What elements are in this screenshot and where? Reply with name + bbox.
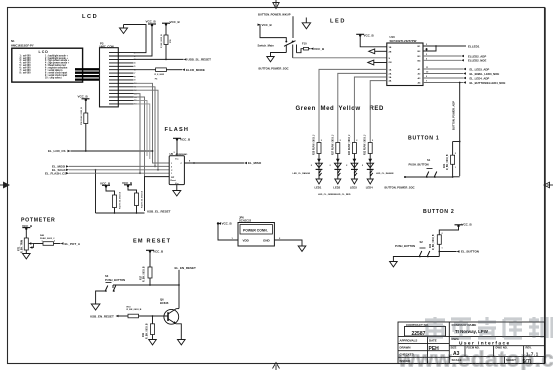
svg-text:R_8_0603: R_8_0603 — [155, 74, 165, 76]
transistor Q6 — [164, 309, 179, 325]
svg-text:VCC_B: VCC_B — [222, 222, 233, 226]
mux U10 body — [387, 43, 423, 86]
power VCC_B (pull-up R14) — [122, 181, 133, 187]
power VCC_B (R15 pull-up) — [162, 20, 181, 26]
power connector JP6 body — [238, 223, 274, 247]
bus wire LCD to connector (4 thick bars) — [75, 69, 100, 79]
svg-text:BUTTON 1: BUTTON 1 — [408, 136, 439, 142]
wire pin16 stub — [134, 104, 150, 159]
resistor R16 (pull-up on EL_LCD_CS) — [81, 100, 88, 151]
wire VCC to pin 2 — [134, 25, 153, 56]
net label EL_POT_A — [61, 242, 81, 246]
wire emitter to ground — [176, 324, 182, 340]
wire EL_EN_RESET vertical to collector — [178, 270, 180, 309]
LED D1 (green) — [311, 154, 323, 180]
svg-text:POWER CONN.: POWER CONN. — [243, 229, 268, 233]
wire pin14 down to USB_EL_RESET rail — [134, 97, 145, 177]
net label EL_BUTTON — [457, 250, 479, 254]
mux input stub with arrow (pin OE) — [368, 60, 387, 65]
power VCC_B (flash) — [173, 137, 191, 141]
svg-text:VCC_B: VCC_B — [153, 249, 164, 253]
power VCC_B (after fuse) — [311, 47, 326, 51]
svg-text:1: 1 — [42, 241, 43, 243]
svg-text:PUSH_BUTTON: PUSH_BUTTON — [105, 278, 125, 282]
watermark — [397, 317, 553, 370]
net label EL_SCLK — [52, 168, 169, 172]
svg-text:2: 2 — [442, 233, 443, 235]
svg-text:BUTTON_POWER_SOC: BUTTON_POWER_SOC — [385, 185, 415, 189]
connector P3 pin numbers — [134, 52, 137, 105]
junction EL_SCLK — [157, 169, 159, 171]
svg-text:PUSH_BUTTON: PUSH_BUTTON — [409, 162, 429, 166]
svg-text:DATE: DATE — [429, 339, 437, 343]
svg-text:VCC_B: VCC_B — [78, 94, 89, 98]
net label EL_MISO — [244, 161, 262, 165]
wire mux B3 to ELLED2_ADP — [423, 54, 486, 58]
svg-text:R25 FLPW_0603_J: R25 FLPW_0603_J — [314, 134, 316, 155]
svg-text:SN74CBTLV3257PW: SN74CBTLV3257PW — [390, 39, 417, 43]
resistor R17 — [141, 252, 153, 286]
wire pin3 to USB_SL_RESET — [134, 59, 184, 61]
resistor R40 body — [43, 242, 54, 246]
wire R40 to EL_POT_A — [54, 243, 61, 245]
svg-text:S1: S1 — [427, 158, 431, 162]
svg-text:2: 2 — [455, 153, 456, 155]
wire pin15 stub — [134, 100, 148, 156]
wire mux 3A to yellow column — [354, 77, 386, 143]
net label ELCD_MODE — [182, 68, 205, 72]
svg-text:RT1: RT1 — [18, 246, 20, 251]
wire VCC to VDD — [218, 224, 238, 241]
svg-text:VCC_B: VCC_B — [180, 137, 191, 141]
connector P3 pins 1-16 — [109, 53, 134, 104]
flash U5 internal pin names — [171, 159, 183, 185]
svg-text:Med: Med — [321, 106, 335, 112]
mux U10 internal pin names — [389, 46, 422, 85]
ground (button2) — [390, 262, 398, 267]
power VCC_B (button2) — [455, 222, 473, 227]
svg-text:VCC_B: VCC_B — [146, 19, 157, 23]
ground (R11) — [149, 340, 157, 345]
resistor R21 tap jog — [453, 141, 461, 156]
svg-text:USB_EL_RESET: USB_EL_RESET — [147, 209, 171, 213]
ground (top of LCD area) — [120, 25, 128, 34]
resistor R22 — [430, 233, 443, 257]
svg-text:R11: R11 — [143, 332, 145, 337]
LED D3 (yellow) — [346, 154, 358, 180]
svg-text:Yellow: Yellow — [339, 106, 361, 112]
potentiometer RT1 — [18, 238, 33, 253]
svg-text:1: 1 — [455, 167, 456, 169]
wire button2 row to ground — [393, 257, 439, 262]
svg-text:F10: F10 — [302, 41, 307, 45]
wire S3 to ground — [96, 291, 106, 304]
svg-text:R32 FLPW_0603_J: R32 FLPW_0603_J — [365, 134, 367, 155]
LCD pin list right column — [45, 54, 70, 79]
svg-text:R21: R21 — [444, 163, 446, 168]
power VCC_B (pin 2 pull) — [146, 19, 157, 26]
ground (potmeter) — [23, 254, 31, 259]
svg-text:GND: GND — [263, 238, 271, 242]
wire R10 to base — [139, 315, 169, 317]
net arrow LED3 — [350, 179, 358, 190]
svg-text:R_BK_0603_B: R_BK_0603_B — [144, 266, 146, 282]
svg-text:OE: OE — [389, 62, 393, 64]
svg-text:1A: 1A — [389, 68, 392, 71]
wire EL_LCD_CS — [71, 150, 153, 152]
svg-text:R_BK_0603_B: R_BK_0603_B — [161, 34, 163, 48]
svg-text:VCC_B: VCC_B — [100, 181, 111, 185]
svg-text:VCC_B: VCC_B — [262, 23, 273, 27]
resistor R13 pull-up — [106, 187, 122, 214]
frame centre mark top — [273, 0, 279, 9]
net label EL_LCD_CS — [48, 149, 71, 153]
svg-text:R30 FLPW_0603_J: R30 FLPW_0603_J — [349, 134, 351, 155]
svg-text:FLASH: FLASH — [165, 127, 190, 133]
wire pin11 down to flash pin2 — [134, 87, 156, 167]
power VCC_B (led mux) — [356, 34, 374, 38]
ground (power conn) — [298, 246, 306, 251]
resistor R8 (series, horizontal) — [155, 68, 167, 81]
svg-text:EL_EN_RESET: EL_EN_RESET — [175, 266, 197, 270]
pushbutton S1 contacts — [426, 169, 437, 178]
net label USB_SL_RESET — [184, 58, 212, 62]
wire switch to left ground — [271, 53, 287, 57]
resistor R14 pull-up — [128, 186, 144, 213]
wire VCC to flash Vcc pin — [176, 140, 178, 156]
svg-text:USB_SL_RESET: USB_SL_RESET — [188, 58, 212, 62]
wire VCC to mux pin — [360, 36, 387, 47]
junction and wire to EL_BUTTON — [438, 251, 456, 253]
wire flash pin5 to USB_EL_RESET vertical — [145, 177, 170, 211]
svg-text:R_BK_0603_B: R_BK_0603_B — [433, 234, 435, 250]
svg-text:ELCD_MODE: ELCD_MODE — [186, 68, 205, 72]
pushbutton S2 contacts — [419, 248, 430, 257]
svg-text:VCC_B: VCC_B — [122, 181, 133, 185]
mux input stub with arrow (pin 1B) — [369, 49, 387, 54]
svg-text:VCC_B: VCC_B — [462, 222, 473, 226]
svg-text:USB_EN_RESET: USB_EN_RESET — [90, 315, 114, 319]
svg-text:22587: 22587 — [412, 331, 426, 337]
wire mux 1A to green column — [319, 69, 387, 142]
svg-text:EM RESET: EM RESET — [133, 239, 171, 245]
title block outline — [398, 322, 545, 364]
svg-text:R_BK_TRIM: R_BK_TRIM — [21, 240, 23, 253]
svg-text:Switch_Main: Switch_Main — [258, 44, 275, 48]
resistor R25 (green) — [314, 134, 323, 155]
svg-text:1: 1 — [442, 248, 443, 250]
net label EL_FLASH_CS — [45, 171, 169, 175]
frame centre mark right — [544, 182, 553, 188]
wire mux A1 to EL_LED3_ADP — [423, 67, 489, 71]
svg-text:R14 R_03_0603_B: R14 R_03_0603_B — [141, 190, 144, 208]
svg-text:3A: 3A — [389, 76, 392, 79]
wire mux B4 to ELLED2_NOE — [423, 58, 486, 62]
junction on EL_MISO wire — [193, 162, 195, 164]
svg-text:EL_FLASH_CS: EL_FLASH_CS — [45, 171, 66, 175]
flash pin 8 wire to EL_MISO — [184, 162, 244, 164]
svg-text:BC846: BC846 — [160, 301, 169, 305]
ground (em reset button) — [91, 304, 100, 310]
svg-text:BUTTON 2: BUTTON 2 — [423, 209, 454, 215]
junction EL_MOSI — [154, 166, 156, 168]
wire pull-up rail riser — [95, 169, 97, 213]
power VCC_B (potmeter) — [22, 224, 33, 230]
wire button1 row — [404, 176, 460, 178]
power VCC_B (em reset) — [146, 249, 164, 253]
frame centre mark bottom — [273, 363, 280, 370]
wire em reset row — [113, 284, 179, 286]
svg-text:BUTTON_POWER_SOC: BUTTON_POWER_SOC — [259, 66, 289, 70]
net arrow LED1 — [315, 179, 323, 190]
svg-text:LED1: LED1 — [315, 186, 322, 190]
svg-text:BUTTON_POWER_ADP: BUTTON_POWER_ADP — [452, 101, 456, 130]
svg-text:LCD: LCD — [39, 50, 49, 54]
svg-text:LCD: LCD — [82, 14, 98, 20]
svg-text:EL_EN/EL_LED3_NOE: EL_EN/EL_LED3_NOE — [470, 72, 500, 76]
svg-text:EL_LED4_ADP: EL_LED4_ADP — [470, 76, 490, 80]
svg-text:R16 FLBK_0603_B: R16 FLBK_0603_B — [81, 107, 83, 125]
wire pull-up rail to USB_EL_RESET — [96, 212, 145, 214]
svg-text:1B: 1B — [389, 47, 392, 49]
power VCC_B (switch feed) — [258, 23, 273, 27]
power VCC_B (power conn) — [217, 222, 233, 226]
svg-text:2: 2 — [54, 241, 55, 243]
net arrow LED2 — [333, 179, 341, 190]
svg-text:LED_CL_RANGE: LED_CL_RANGE — [293, 172, 311, 175]
wire S3 stub up to row — [112, 285, 114, 288]
wire pot to ground — [25, 250, 27, 254]
svg-text:EL_LCD_CS: EL_LCD_CS — [48, 149, 66, 153]
svg-text:R22: R22 — [430, 243, 432, 248]
svg-text:EL_LED3_ADP: EL_LED3_ADP — [470, 67, 490, 71]
wire switch to LED mux select pin — [293, 57, 387, 59]
resistor R21 — [444, 153, 456, 177]
svg-text:R27 FLPW_0603_J: R27 FLPW_0603_J — [332, 134, 334, 155]
wire flash Vss to ground — [176, 185, 178, 191]
svg-text:RED: RED — [370, 106, 385, 112]
wire VCC to R22 — [439, 226, 458, 235]
wire to R10 — [119, 315, 129, 317]
svg-text:ELLED1: ELLED1 — [468, 45, 480, 49]
svg-text:R_BK_0603_B: R_BK_0603_B — [127, 309, 142, 311]
power VCC_B (pull-up R13) — [100, 181, 111, 187]
svg-text:R17: R17 — [141, 275, 143, 280]
frame centre mark left — [0, 182, 9, 188]
wire mux A4 to EL_BUTTON/ELLED4_NOE — [423, 81, 505, 85]
resistor R30 (yellow) — [349, 134, 358, 155]
wire pin12 down to flash pin3 — [134, 90, 159, 170]
svg-text:BUTTON_POWER_WKUP: BUTTON_POWER_WKUP — [258, 12, 291, 16]
wire BUTTON_POWER_ADP vertical from mux A4 — [459, 82, 461, 176]
svg-text:HMC16315GF-PY: HMC16315GF-PY — [11, 43, 34, 47]
svg-text:S3: S3 — [105, 274, 109, 278]
svg-text:Reset: Reset — [171, 179, 177, 182]
svg-text:VDD: VDD — [243, 238, 250, 242]
svg-text:APPROVALS: APPROVALS — [400, 339, 418, 343]
svg-text:8 : sel 000: 8 : sel 000 — [20, 73, 32, 75]
svg-text:Q6: Q6 — [160, 298, 164, 302]
svg-text:R_BK_0603_B: R_BK_0603_B — [447, 154, 449, 170]
fuse F10 — [297, 41, 311, 52]
flash U5 body — [169, 156, 184, 185]
svg-text:EL_MISO: EL_MISO — [248, 161, 262, 165]
wire mux A3 to EL_LED4_ADP — [423, 76, 489, 80]
svg-text:R13 R_03_0603_B: R13 R_03_0603_B — [120, 191, 122, 209]
wire pin6 to R8 — [134, 69, 156, 71]
junction pin13/EL_FLASH_CS — [139, 172, 141, 174]
wire R8 to ELCD_MODE — [166, 69, 182, 71]
svg-text:LED4: LED4 — [366, 186, 373, 190]
svg-text:R_BK_0603_B: R_BK_0603_B — [146, 323, 148, 339]
svg-text:2A: 2A — [389, 72, 392, 75]
svg-text:EL_BUTTON/ELLED4_NOE: EL_BUTTON/ELLED4_NOE — [470, 81, 506, 85]
junction EL_LCD_CS on vertical — [152, 150, 154, 152]
svg-text:LED_CL_GREEN/LED_CL_RED: LED_CL_GREEN/LED_CL_RED — [318, 194, 351, 196]
svg-text:2B: 2B — [389, 51, 392, 53]
svg-text:Green: Green — [296, 106, 316, 112]
LCD pin list left column — [20, 55, 32, 74]
resistor R11 (base pulldown) — [143, 316, 154, 340]
svg-text:VCC_B: VCC_B — [170, 20, 181, 24]
wire wiper to R40 — [34, 243, 44, 245]
svg-text:LED: LED — [330, 19, 346, 25]
resistor R10 body — [128, 314, 139, 318]
LCD module box N1 — [12, 48, 83, 82]
resistor R32 (red) — [365, 134, 374, 155]
wire GND to ground — [274, 240, 302, 246]
wire mux 4A to red column — [370, 81, 387, 143]
svg-text:VCC_B: VCC_B — [364, 34, 375, 38]
svg-text:POTMETER: POTMETER — [21, 218, 55, 224]
svg-text:VCC_B: VCC_B — [314, 47, 325, 51]
svg-text:10 : chip select: 10 : chip select — [45, 77, 62, 80]
wire pin13 down to EL_FLASH_CS — [134, 94, 141, 174]
wire mux 2A to med column — [338, 73, 387, 142]
wire mux pin3 loop to ELLED1 — [423, 45, 437, 51]
LED D2 (med) — [330, 154, 342, 180]
svg-text:www.edatop.com: www.edatop.com — [397, 347, 553, 370]
wire pin10 down to flash pin1 — [134, 83, 170, 163]
svg-text:LED2: LED2 — [333, 186, 340, 190]
ground left of switch — [267, 57, 274, 62]
net label USB_EN_RESET — [90, 315, 119, 319]
net arrow LED4 — [366, 179, 374, 190]
power VCC_B (R16 pull-up) — [78, 94, 90, 101]
wire collector up — [176, 308, 179, 310]
ground above switch — [302, 18, 310, 29]
wire VCC to switch left pin — [260, 25, 286, 41]
svg-text:ELLED2_NOE: ELLED2_NOE — [468, 59, 486, 63]
pushbutton S3 contacts — [105, 283, 116, 292]
switch S2 Switch_Main — [258, 41, 297, 59]
svg-text:EL_POT_A: EL_POT_A — [65, 242, 81, 246]
wire mux B1 to ELLED1 — [423, 44, 480, 49]
wire mux A2 to EL_EN/EL_LED3_NOE — [423, 72, 499, 76]
svg-text:4A: 4A — [389, 80, 392, 83]
connector P3 body — [100, 48, 119, 107]
net label EL_MOSI — [52, 165, 169, 169]
svg-text:LED3: LED3 — [350, 186, 357, 190]
svg-text:S2: S2 — [420, 240, 424, 244]
LED D4 (red) — [362, 154, 374, 180]
wire WKUP label down to switch — [292, 16, 294, 38]
ground (emitter) — [178, 340, 186, 345]
svg-text:PUSH_BUTTON: PUSH_BUTTON — [395, 244, 415, 248]
flash ground — [173, 191, 181, 197]
svg-text:LED_CL_RANGE: LED_CL_RANGE — [376, 172, 394, 175]
wire ground to pin 1 — [124, 25, 147, 53]
wire VCC to pot — [25, 229, 27, 238]
junction R16 / EL_LCD_CS — [85, 150, 87, 152]
resistor R27 (med) — [332, 134, 341, 155]
svg-text:EL_BUTTON: EL_BUTTON — [461, 250, 479, 254]
resistor R15 (vertical pull-up) — [161, 25, 172, 60]
